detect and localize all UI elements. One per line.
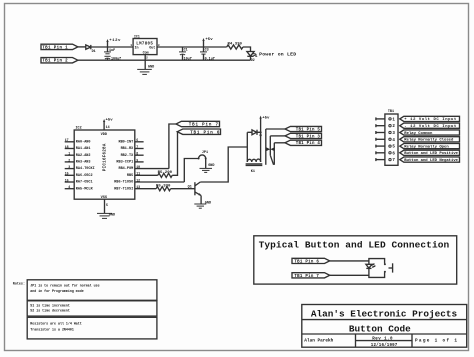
svg-text:IC2: IC2	[76, 126, 82, 130]
svg-text:10uf: 10uf	[184, 56, 192, 61]
pin 7 RB1-RX	[121, 145, 144, 151]
microcontroller IC2 PIC16F628A (body)	[74, 126, 135, 200]
ground (Q1 emitter)	[194, 202, 211, 209]
net label flag: Relay Common	[400, 130, 460, 136]
pin 2 RA3-AN3	[65, 158, 91, 164]
net label flag: + 12 Volt DC Input	[400, 116, 460, 122]
pin 17 RA0-AN0	[65, 138, 91, 144]
svg-text:2: 2	[146, 56, 148, 60]
svg-text:8: 8	[136, 152, 138, 156]
wire: Pin 7 to LED/button	[330, 274, 369, 276]
svg-text:IC1: IC1	[134, 35, 140, 39]
TB1 pin 3	[376, 131, 396, 136]
pin 13 RB7-T1OSI	[114, 185, 156, 191]
pin 15 RA6-OSC2	[65, 172, 93, 178]
svg-text:1: 1	[130, 43, 132, 47]
wire: contact to TB1 Pin 3 flag	[270, 135, 285, 137]
resistor R6 330	[156, 185, 171, 191]
capacitor C3 0.1uf	[200, 47, 215, 61]
title block frame	[302, 305, 467, 348]
svg-text:Rev 1.0: Rev 1.0	[372, 338, 393, 342]
svg-text:VDD: VDD	[101, 133, 108, 137]
svg-text:RA6-OSC2: RA6-OSC2	[76, 174, 93, 178]
wire: TB1 Pin 1 to D1 anode	[78, 46, 86, 48]
wire: IC1 Com stem	[144, 55, 146, 61]
transistor Q1 (2N4401 NPN)	[188, 182, 202, 204]
svg-text:Button and LED Negative: Button and LED Negative	[404, 158, 458, 163]
svg-text:- 12 Volt DC Input: - 12 Volt DC Input	[404, 124, 456, 129]
net label flag: Relay Normally Open	[400, 144, 460, 150]
svg-text:Page 1 of 1: Page 1 of 1	[415, 339, 457, 344]
svg-text:0.1uf: 0.1uf	[205, 56, 215, 61]
svg-text:5: 5	[106, 203, 108, 207]
svg-text:TB1 Pin 1: TB1 Pin 1	[42, 45, 68, 50]
power symbol +12v	[106, 39, 121, 47]
svg-text:Power on LED: Power on LED	[259, 51, 296, 57]
svg-text:+5v: +5v	[205, 38, 213, 42]
wire: RB6 to jumper JP1	[184, 159, 198, 183]
wire: R4 to LED anode	[243, 47, 251, 51]
pin 9 RB3-CCP1	[116, 158, 143, 164]
contact arrow marks	[266, 147, 274, 151]
svg-text:JP1 is to remain out for norma: JP1 is to remain out for normal use	[30, 283, 99, 287]
svg-text:RA1-AN1: RA1-AN1	[76, 147, 91, 151]
svg-text:TB1 Pin 6: TB1 Pin 6	[190, 130, 220, 135]
wire: R6 to Q1 base	[171, 188, 195, 190]
svg-text:+5v: +5v	[262, 117, 270, 121]
wire: contact to TB1 Pin 5 flag	[266, 128, 285, 130]
capacitor 1uF (input, upper)	[104, 47, 115, 54]
svg-text:D2: D2	[251, 58, 255, 62]
pin 12 RB6-T1OSO	[114, 178, 184, 184]
pushbutton (typical connection)	[384, 263, 393, 273]
net label flag: Relay Normally Closed	[400, 137, 460, 143]
TB1 pin 4	[376, 138, 396, 143]
jumper JP1	[198, 151, 209, 159]
regulator IC1 LM7805	[133, 35, 157, 56]
svg-text:JP1: JP1	[202, 151, 208, 155]
wire: ground rail (TB1 Pin 2 to LED cathode)	[78, 59, 251, 61]
svg-text:Transistor is a 2N4401: Transistor is a 2N4401	[30, 328, 74, 332]
svg-text:R4 330: R4 330	[228, 42, 243, 46]
svg-text:K1: K1	[251, 170, 255, 174]
svg-text:and in for Programming mode: and in for Programming mode	[30, 289, 83, 293]
svg-text:1: 1	[68, 152, 70, 156]
svg-text:GND: GND	[208, 164, 214, 168]
svg-text:D1: D1	[92, 50, 96, 54]
ground (JP1)	[200, 159, 215, 173]
svg-text:RB1-RX: RB1-RX	[121, 147, 135, 151]
pin 6 RB0-INT	[118, 138, 143, 144]
net label flag: Button and LED Negative	[400, 157, 460, 163]
svg-text:4: 4	[68, 185, 70, 189]
svg-text:R6 330: R6 330	[156, 185, 171, 189]
svg-text:S2 is time decrement: S2 is time decrement	[30, 309, 70, 313]
connector flag TB1 Pin 5	[285, 126, 322, 132]
svg-text:+ 12 Volt DC Input: + 12 Volt DC Input	[404, 117, 456, 122]
net label flag: - 12 Volt DC Input	[400, 123, 460, 129]
TB1 pin 1	[376, 117, 396, 122]
svg-text:+12v: +12v	[109, 39, 121, 43]
pin 10 RB4-PGM	[118, 165, 168, 171]
connector flag TB1 Pin 3	[285, 133, 322, 139]
svg-text:S1 is time increment: S1 is time increment	[30, 303, 70, 307]
svg-text:3: 3	[68, 165, 70, 169]
ground (below IC1)	[137, 60, 154, 74]
svg-text:C1: C1	[184, 49, 188, 53]
connector flag TB1 Pin 6 (typical)	[292, 258, 330, 264]
svg-text:TB1 Pin 5: TB1 Pin 5	[296, 127, 321, 132]
wire: parallel loop	[369, 259, 385, 278]
pin 18 RA1-AN1	[65, 145, 91, 151]
svg-text:R5 200: R5 200	[158, 171, 173, 175]
relay contact common leg	[265, 129, 267, 165]
wire: R5 riser to flag	[172, 132, 178, 176]
svg-text:TB1 Pin 3: TB1 Pin 3	[296, 134, 321, 139]
resistor R5 200	[158, 171, 173, 177]
pin 8 RB2-TX	[121, 152, 144, 158]
svg-text:13: 13	[136, 185, 140, 189]
svg-text:12: 12	[136, 178, 140, 182]
svg-text:Alan's Electronic Projects: Alan's Electronic Projects	[311, 309, 458, 320]
svg-text:18: 18	[65, 145, 69, 149]
note box 1 (JP1 usage)	[27, 280, 157, 301]
svg-text:RB3-CCP1: RB3-CCP1	[116, 161, 133, 165]
wire: RB4 riser to flag	[169, 124, 176, 169]
svg-text:RB0-INT: RB0-INT	[118, 140, 133, 144]
svg-text:Button and LED Positive: Button and LED Positive	[404, 151, 458, 156]
svg-text:TB1 Pin 7: TB1 Pin 7	[294, 274, 319, 279]
svg-text:RB7-T1OSI: RB7-T1OSI	[114, 187, 133, 191]
pin 16 RA7-OSC1	[65, 178, 93, 184]
svg-text:Relay Common: Relay Common	[404, 131, 433, 136]
svg-text:C3: C3	[205, 49, 209, 53]
capacitor 100uf (input, electrolytic)	[104, 56, 121, 61]
svg-text:14: 14	[106, 125, 110, 129]
wire: relay coil right leg	[260, 132, 262, 162]
relay contact NO leg	[273, 143, 275, 165]
net label flag: Button and LED Positive	[400, 150, 460, 156]
pin 1 RA2-AN2	[65, 152, 91, 158]
wire: D1 cathode to IC1 In	[91, 46, 133, 48]
svg-text:2: 2	[68, 158, 70, 162]
connector flag TB1 Pin 2	[41, 58, 78, 64]
svg-text:RA5-MCLR: RA5-MCLR	[76, 187, 94, 191]
svg-text:1uF: 1uF	[109, 49, 115, 53]
flyback diode (across K1 coil)	[247, 130, 260, 135]
power symbol +5v (above C3)	[202, 38, 213, 47]
svg-text:RB2-TX: RB2-TX	[121, 154, 135, 158]
TB1 pin 2	[376, 124, 396, 129]
svg-text:RA3-AN3: RA3-AN3	[76, 161, 91, 165]
svg-text:RB5: RB5	[127, 174, 133, 178]
connector flag TB1 Pin 7 (typical)	[292, 273, 330, 279]
relay contact moving pole	[270, 136, 273, 165]
note box 3 (parts)	[27, 317, 157, 339]
svg-text:GND: GND	[148, 66, 154, 70]
svg-text:Notes:: Notes:	[13, 283, 25, 287]
svg-text:RB4-PGM: RB4-PGM	[118, 167, 133, 171]
svg-text:PIC16F628A: PIC16F628A	[103, 143, 107, 171]
terminal block TB1 (body)	[385, 110, 398, 165]
svg-text:RA0-AN0: RA0-AN0	[76, 140, 91, 144]
TB1 pin 7	[376, 158, 396, 163]
connector flag TB1 Pin 7	[176, 121, 220, 127]
ground (below IC2)	[97, 199, 115, 218]
wire: relay coil left leg	[246, 132, 248, 162]
wire: contact to TB1 Pin 4 flag	[274, 142, 285, 144]
note box 2 (S1/S2)	[27, 301, 157, 316]
box: Typical Button and LED Connection	[254, 236, 457, 284]
diode D1	[86, 45, 96, 54]
wire: Q1 collector to relay coil	[200, 147, 247, 182]
svg-text:17: 17	[65, 138, 69, 142]
svg-text:RA4-T0CKI: RA4-T0CKI	[76, 167, 95, 171]
svg-text:Button Code: Button Code	[349, 324, 411, 335]
svg-text:In: In	[135, 46, 139, 50]
svg-text:16: 16	[65, 178, 69, 182]
svg-text:Out: Out	[149, 46, 155, 50]
svg-text:TB1 Pin 6: TB1 Pin 6	[294, 259, 319, 264]
pin 4 RA5-MCLR	[65, 185, 94, 191]
svg-text:RB6-T1OSO: RB6-T1OSO	[114, 181, 133, 185]
power symbol +5v (IC2 VDD)	[103, 119, 113, 130]
svg-text:9: 9	[136, 158, 138, 162]
svg-text:15: 15	[65, 172, 69, 176]
wire: IC1 Out to R4	[157, 46, 227, 48]
svg-text:10: 10	[136, 165, 140, 169]
connector flag TB1 Pin 6	[177, 129, 220, 135]
svg-text:+5v: +5v	[106, 119, 114, 123]
svg-text:RA7-OSC1: RA7-OSC1	[76, 181, 93, 185]
svg-text:6: 6	[136, 138, 138, 142]
svg-text:RA2-AN2: RA2-AN2	[76, 154, 91, 158]
svg-text:GND: GND	[205, 202, 211, 206]
relay K1 coil	[246, 159, 263, 174]
TB1 pin 5	[376, 145, 396, 150]
junction node (+5v / diode / coil)	[260, 131, 262, 133]
svg-text:GND: GND	[109, 213, 115, 217]
svg-text:Relay Normally Open: Relay Normally Open	[404, 144, 449, 149]
svg-text:TB1 Pin 2: TB1 Pin 2	[42, 59, 68, 64]
pin 11 RB5	[127, 172, 158, 178]
svg-text:11: 11	[136, 172, 140, 176]
svg-text:TB1 Pin 7: TB1 Pin 7	[189, 123, 219, 128]
capacitor C1 10uf	[179, 47, 192, 61]
connector flag TB1 Pin 4	[285, 140, 322, 146]
svg-text:7: 7	[136, 145, 138, 149]
svg-text:Q1: Q1	[188, 185, 192, 189]
pin 3 RA4-T0CKI	[65, 165, 95, 171]
TB1 pin 6	[376, 151, 396, 156]
svg-text:Alan Parekh: Alan Parekh	[304, 338, 333, 343]
svg-text:Typical Button and LED Connect: Typical Button and LED Connection	[259, 240, 450, 251]
resistor R4 330	[227, 42, 243, 49]
svg-text:Relay Normally Closed: Relay Normally Closed	[404, 138, 454, 143]
svg-text:TB1 Pin 4: TB1 Pin 4	[296, 141, 321, 146]
svg-text:12/16/1997: 12/16/1997	[371, 343, 398, 348]
LED (typical connection)	[366, 264, 376, 269]
power symbol +5v (relay)	[259, 116, 270, 133]
LED D2 (power on)	[247, 52, 258, 62]
connector flag TB1 Pin 1	[41, 44, 78, 50]
svg-text:Resistors are all 1/4 Watt: Resistors are all 1/4 Watt	[30, 321, 81, 325]
wire: Pin 6 to LED/button	[330, 260, 369, 262]
